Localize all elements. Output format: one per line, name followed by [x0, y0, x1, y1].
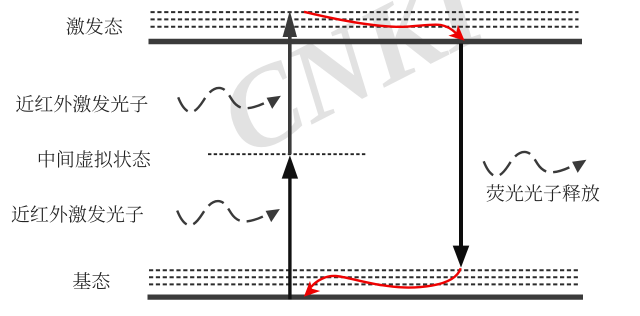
excited-state sublevel dashed line 1 [151, 11, 579, 13]
red relaxation arrowhead (bottom) [299, 281, 320, 302]
photon squiggle: fluorescence photon (right) [483, 152, 586, 176]
red relaxation curve (top) [304, 12, 456, 33]
ground state level line [148, 295, 584, 300]
intermediate virtual state dashed line [208, 153, 368, 155]
photon squiggle: NIR excitation photon (upper left) [178, 88, 281, 112]
red relaxation curve (bottom) [311, 268, 461, 287]
label: excited state 激发态 [66, 17, 122, 35]
excitation arrow 1 head [282, 155, 298, 178]
label: fluorescence photon release 荧光光子释放 [487, 184, 600, 201]
label: intermediate virtual state 中间虚拟状态 [39, 150, 150, 168]
ground-state sublevel dashed line 1 [149, 269, 579, 271]
emission arrow shaft (excited to ground) [459, 44, 463, 248]
ground-state sublevel dashed line 2 [149, 276, 579, 278]
label: NIR excitation photon 近红外激发光子 (lower) [12, 205, 143, 223]
excitation arrow 2 head [283, 11, 297, 37]
label: NIR excitation photon 近红外激发光子 (upper) [16, 95, 147, 113]
emission arrow head [453, 246, 470, 268]
excited-state sublevel dashed line 3 [151, 26, 579, 28]
ground-state sublevel dashed line 3 [149, 283, 579, 285]
excitation arrow 1 shaft (ground to virtual state) [288, 176, 291, 300]
excited-state sublevel dashed line 2 [151, 18, 579, 20]
excited state level line [149, 39, 583, 44]
photon squiggle: NIR excitation photon (lower left) [177, 201, 280, 225]
excitation arrow 2 shaft (virtual to excited state) [288, 34, 292, 154]
red relaxation arrowhead (top) [448, 25, 469, 46]
label: ground state 基态 [73, 272, 110, 289]
